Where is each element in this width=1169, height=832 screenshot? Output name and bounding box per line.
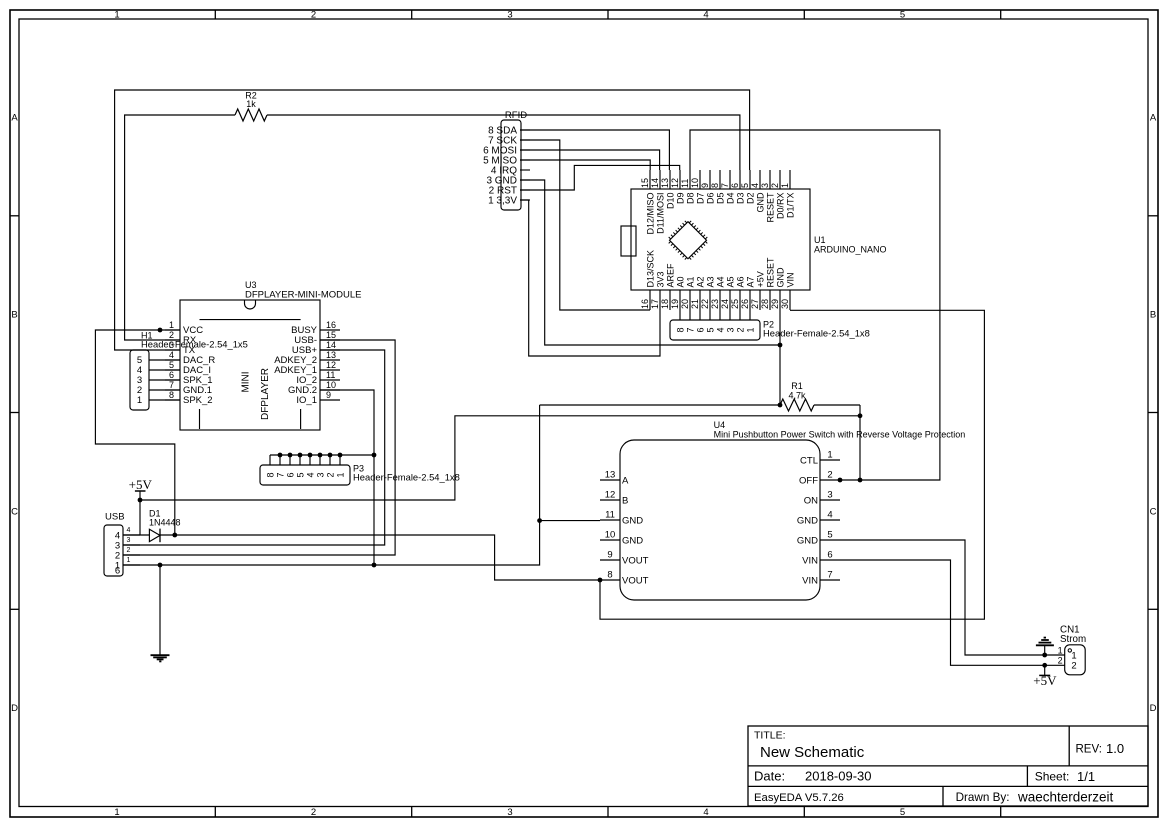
svg-text:26: 26 xyxy=(740,299,750,309)
wire net R2 to D3 xyxy=(267,115,740,170)
svg-text:4: 4 xyxy=(703,9,708,20)
svg-text:2: 2 xyxy=(127,547,131,554)
connector CN1 Strom xyxy=(1058,625,1086,675)
svg-text:3: 3 xyxy=(315,472,325,477)
svg-text:2018-09-30: 2018-09-30 xyxy=(805,769,872,784)
svg-text:VOUT: VOUT xyxy=(622,575,649,586)
svg-text:1: 1 xyxy=(780,183,790,188)
svg-text:D10: D10 xyxy=(665,193,675,210)
svg-text:9: 9 xyxy=(326,390,331,400)
svg-text:8: 8 xyxy=(265,472,275,477)
svg-text:TITLE:: TITLE: xyxy=(754,730,786,742)
module U3 DFPLAYER-MINI-MODULE xyxy=(165,280,361,430)
frame column ticks bottom xyxy=(215,807,1000,818)
wire net GND drop to ground symbol xyxy=(159,565,161,655)
svg-text:5: 5 xyxy=(169,360,174,370)
svg-text:5: 5 xyxy=(827,530,832,541)
wire net MOSI to D11 xyxy=(520,150,660,170)
svg-text:1: 1 xyxy=(745,327,755,332)
svg-text:4: 4 xyxy=(703,807,708,818)
svg-text:Mini Pushbutton Power Switch w: Mini Pushbutton Power Switch with Revers… xyxy=(714,430,966,440)
svg-text:+5V: +5V xyxy=(129,477,153,492)
wire net USB D- to DFPlayer USB- xyxy=(123,340,395,555)
svg-text:D11/MOSI: D11/MOSI xyxy=(655,193,665,234)
svg-text:3: 3 xyxy=(127,537,131,544)
svg-text:9: 9 xyxy=(607,550,612,561)
svg-text:1: 1 xyxy=(1058,646,1063,656)
svg-text:OFF: OFF xyxy=(799,475,818,486)
svg-text:23: 23 xyxy=(710,299,720,309)
svg-text:3: 3 xyxy=(725,327,735,332)
svg-text:D7: D7 xyxy=(695,193,705,205)
svg-text:2: 2 xyxy=(735,327,745,332)
svg-text:4: 4 xyxy=(305,472,315,477)
svg-text:DFPLAYER-MINI-MODULE: DFPLAYER-MINI-MODULE xyxy=(245,290,361,301)
svg-text:10: 10 xyxy=(326,380,336,390)
svg-text:15: 15 xyxy=(640,178,650,188)
svg-text:A: A xyxy=(622,475,629,486)
svg-text:6: 6 xyxy=(695,327,705,332)
svg-text:GND: GND xyxy=(797,535,818,546)
wire R1 right lead xyxy=(814,404,860,406)
svg-text:A4: A4 xyxy=(715,276,725,287)
svg-text:A3: A3 xyxy=(705,276,715,287)
frame column numbers top xyxy=(114,9,905,20)
svg-text:GND: GND xyxy=(622,515,643,526)
svg-text:D1/TX: D1/TX xyxy=(785,193,795,219)
frame row letters left xyxy=(11,112,18,714)
svg-text:A1: A1 xyxy=(685,276,695,287)
svg-text:6: 6 xyxy=(827,550,832,561)
svg-text:16: 16 xyxy=(640,299,650,309)
svg-text:A7: A7 xyxy=(745,276,755,287)
IC U4 Mini Pushbutton Power Switch xyxy=(600,420,965,600)
svg-text:Header-Female-2.54_1x8: Header-Female-2.54_1x8 xyxy=(763,328,870,339)
svg-text:Header-Female-2.54_1x5: Header-Female-2.54_1x5 xyxy=(141,339,248,350)
svg-text:12: 12 xyxy=(326,360,336,370)
svg-text:8: 8 xyxy=(710,183,720,188)
svg-text:D6: D6 xyxy=(705,193,715,205)
svg-text:1/1: 1/1 xyxy=(1077,769,1095,784)
svg-text:6: 6 xyxy=(115,566,120,577)
wire net GND USB pin1 stub xyxy=(123,564,160,566)
ground symbol near USB xyxy=(151,655,170,661)
svg-text:ARDUINO_NANO: ARDUINO_NANO xyxy=(814,245,887,255)
svg-text:2: 2 xyxy=(311,807,316,818)
svg-text:21: 21 xyxy=(690,299,700,309)
svg-text:13: 13 xyxy=(326,350,336,360)
svg-text:14: 14 xyxy=(326,340,336,350)
svg-text:D: D xyxy=(11,703,18,714)
svg-text:MINI: MINI xyxy=(241,371,252,392)
svg-text:7: 7 xyxy=(827,570,832,581)
svg-text:6: 6 xyxy=(169,370,174,380)
svg-text:D12/MISO: D12/MISO xyxy=(645,193,655,235)
wire net VCC: diode cathode to DFPlayer VCC xyxy=(95,328,180,538)
svg-text:25: 25 xyxy=(730,299,740,309)
frame row letters right xyxy=(1150,112,1157,714)
wire net TX to D2 (top long wire) xyxy=(115,90,750,350)
svg-text:16: 16 xyxy=(326,320,336,330)
IC U1 ARDUINO_NANO xyxy=(621,170,887,310)
svg-text:20: 20 xyxy=(680,299,690,309)
resistor R2 xyxy=(235,90,267,121)
svg-text:11: 11 xyxy=(680,179,690,188)
svg-text:D2: D2 xyxy=(745,193,755,205)
svg-text:R1: R1 xyxy=(791,381,803,391)
svg-text:RESET: RESET xyxy=(765,257,775,288)
svg-text:5: 5 xyxy=(295,472,305,477)
wire P3 common bus xyxy=(270,453,374,458)
svg-text:2: 2 xyxy=(1058,656,1063,666)
svg-text:1: 1 xyxy=(169,320,174,330)
wire net USB pin4 / diode row to U4 VOUT xyxy=(123,535,602,582)
header H1 HeaderFemale-2.54_1x5 xyxy=(130,331,248,411)
svg-text:U4: U4 xyxy=(714,420,726,430)
svg-text:New Schematic: New Schematic xyxy=(760,744,865,761)
svg-text:A5: A5 xyxy=(725,276,735,287)
svg-text:6: 6 xyxy=(285,472,295,477)
svg-text:GND: GND xyxy=(797,515,818,526)
svg-text:C: C xyxy=(11,506,18,517)
svg-text:7: 7 xyxy=(685,327,695,332)
diode D1 1N4448 xyxy=(149,509,181,543)
svg-text:B: B xyxy=(11,309,17,320)
header P3 Header-Female-2.54_1x8 xyxy=(260,455,460,485)
svg-text:13: 13 xyxy=(660,178,670,188)
svg-text:14: 14 xyxy=(650,178,660,188)
svg-text:5: 5 xyxy=(900,9,905,20)
svg-text:30: 30 xyxy=(780,299,790,309)
wire net D8 to U4 OFF xyxy=(690,130,940,482)
svg-text:C: C xyxy=(1150,506,1157,517)
svg-text:D8: D8 xyxy=(685,193,695,205)
svg-text:5: 5 xyxy=(705,327,715,332)
svg-text:Date:: Date: xyxy=(754,769,785,784)
svg-text:5: 5 xyxy=(740,183,750,188)
svg-text:5: 5 xyxy=(900,807,905,818)
svg-text:1: 1 xyxy=(137,395,142,406)
svg-text:RFID: RFID xyxy=(505,110,527,121)
svg-text:GND: GND xyxy=(622,535,643,546)
svg-text:U3: U3 xyxy=(245,280,257,290)
wire net RFID GND to Arduino GND xyxy=(520,180,782,347)
svg-text:12: 12 xyxy=(670,178,680,188)
svg-text:7: 7 xyxy=(720,183,730,188)
svg-text:4: 4 xyxy=(827,510,832,521)
svg-text:VIN: VIN xyxy=(802,555,818,566)
svg-text:28: 28 xyxy=(760,299,770,309)
svg-text:A: A xyxy=(11,112,18,123)
svg-text:ON: ON xyxy=(804,495,818,506)
svg-text:D9: D9 xyxy=(675,193,685,205)
wire net +5V from symbol to U4 OFF / R1 right xyxy=(138,405,863,535)
svg-text:GND: GND xyxy=(755,192,765,213)
svg-text:9: 9 xyxy=(700,183,710,188)
svg-text:12: 12 xyxy=(605,490,616,501)
svg-text:3V3: 3V3 xyxy=(655,271,665,287)
svg-text:B: B xyxy=(622,495,628,506)
power +5V symbol at CN1 xyxy=(1033,665,1057,688)
wire net GND DFPlayer GND.2 via P3 bus xyxy=(320,390,376,565)
wire net RFID 3.3V to Arduino 3V3 xyxy=(520,200,660,356)
svg-text:D4: D4 xyxy=(725,193,735,205)
svg-text:4: 4 xyxy=(750,183,760,188)
svg-text:2: 2 xyxy=(770,183,780,188)
svg-text:7: 7 xyxy=(275,472,285,477)
svg-text:IO_1: IO_1 xyxy=(296,395,317,406)
frame row ticks left xyxy=(10,216,19,610)
svg-text:18: 18 xyxy=(660,299,670,309)
svg-text:1 3,3V: 1 3,3V xyxy=(488,195,517,206)
ground symbol at CN1 xyxy=(1036,638,1054,655)
svg-text:A: A xyxy=(1150,112,1157,123)
svg-text:+5V: +5V xyxy=(1033,673,1057,688)
svg-text:D: D xyxy=(1150,703,1157,714)
svg-text:A2: A2 xyxy=(695,276,705,287)
svg-text:2: 2 xyxy=(1071,661,1076,672)
svg-text:7: 7 xyxy=(169,380,174,390)
wire net MISO to D12 xyxy=(520,160,650,170)
svg-text:1: 1 xyxy=(335,472,345,477)
svg-text:19: 19 xyxy=(670,299,680,309)
wire net RST to D9 xyxy=(520,165,680,190)
svg-text:Header-Female-2.54_1x8: Header-Female-2.54_1x8 xyxy=(353,472,460,483)
svg-text:29: 29 xyxy=(770,299,780,309)
wire net U4 GND pin5 to CN1 pin1 xyxy=(840,540,1065,657)
svg-text:17: 17 xyxy=(650,299,660,309)
svg-text:8: 8 xyxy=(607,570,612,581)
svg-text:2: 2 xyxy=(325,472,335,477)
svg-text:U1: U1 xyxy=(814,235,826,245)
wire net GND vertical with U4 GND branch xyxy=(158,405,600,567)
svg-text:1: 1 xyxy=(114,807,119,818)
svg-text:10: 10 xyxy=(605,530,616,541)
svg-text:AREF: AREF xyxy=(665,263,675,288)
svg-text:A6: A6 xyxy=(735,276,745,287)
svg-text:D3: D3 xyxy=(735,193,745,205)
header RFID 1x8 xyxy=(483,110,530,210)
svg-text:waechterderzeit: waechterderzeit xyxy=(1017,790,1114,805)
svg-text:3: 3 xyxy=(760,183,770,188)
svg-text:24: 24 xyxy=(720,299,730,309)
svg-text:D13/SCK: D13/SCK xyxy=(645,250,655,288)
svg-text:3: 3 xyxy=(827,490,832,501)
svg-text:DFPLAYER: DFPLAYER xyxy=(260,368,271,420)
svg-text:1: 1 xyxy=(127,557,131,564)
svg-text:11: 11 xyxy=(605,510,615,521)
frame row ticks right xyxy=(1148,216,1158,610)
svg-text:1: 1 xyxy=(827,450,832,461)
svg-text:6: 6 xyxy=(730,183,740,188)
svg-text:15: 15 xyxy=(326,330,336,340)
svg-text:EasyEDA V5.7.26: EasyEDA V5.7.26 xyxy=(754,792,844,804)
svg-text:10: 10 xyxy=(690,178,700,188)
wire net SDA to D10 xyxy=(520,130,669,170)
svg-text:REV:: REV: xyxy=(1076,744,1102,756)
svg-text:D5: D5 xyxy=(715,193,725,205)
wire net GND horizontal R1 row xyxy=(540,404,780,406)
svg-text:Sheet:: Sheet: xyxy=(1035,770,1070,784)
svg-text:CTL: CTL xyxy=(800,455,818,466)
svg-text:VIN: VIN xyxy=(785,272,795,287)
header P2 Header-Female-2.54_1x8 xyxy=(670,310,870,340)
svg-text:B: B xyxy=(1150,309,1156,320)
svg-text:8: 8 xyxy=(675,327,685,332)
svg-text:2: 2 xyxy=(311,9,316,20)
svg-text:VOUT: VOUT xyxy=(622,555,649,566)
svg-text:A0: A0 xyxy=(675,276,685,287)
svg-text:27: 27 xyxy=(750,299,760,309)
svg-text:1.0: 1.0 xyxy=(1106,741,1124,756)
svg-text:VIN: VIN xyxy=(802,575,818,586)
power +5V symbol top left xyxy=(129,477,153,492)
svg-text:GND: GND xyxy=(775,267,785,288)
title block xyxy=(748,726,1148,806)
svg-text:11: 11 xyxy=(326,370,335,380)
svg-text:+5V: +5V xyxy=(755,271,765,287)
svg-text:4: 4 xyxy=(127,527,131,534)
wire net SCK to D13 xyxy=(520,140,650,310)
svg-text:8: 8 xyxy=(169,390,174,400)
frame column numbers bottom xyxy=(114,807,905,818)
wire net GND main: Arduino pin29 down to R1 junction xyxy=(778,310,783,407)
svg-text:D0/RX: D0/RX xyxy=(775,193,785,220)
svg-text:3: 3 xyxy=(507,9,512,20)
svg-text:1: 1 xyxy=(114,9,119,20)
resistor R1 xyxy=(780,381,814,411)
svg-text:1N4448: 1N4448 xyxy=(149,518,181,528)
svg-text:1k: 1k xyxy=(246,99,256,109)
svg-text:4: 4 xyxy=(715,327,725,332)
svg-text:4: 4 xyxy=(169,350,174,360)
svg-text:Strom: Strom xyxy=(1060,634,1086,645)
svg-text:USB: USB xyxy=(105,512,125,523)
svg-text:SPK_2: SPK_2 xyxy=(183,395,213,406)
wire net VOUT to Arduino VIN xyxy=(600,310,984,619)
svg-text:4,7k: 4,7k xyxy=(788,391,806,401)
svg-text:22: 22 xyxy=(700,299,710,309)
svg-text:Drawn By:: Drawn By: xyxy=(956,791,1010,804)
connector USB xyxy=(104,512,140,577)
wire net RX to R2 left xyxy=(125,115,235,340)
svg-text:13: 13 xyxy=(605,470,616,481)
frame column ticks top xyxy=(215,10,1000,19)
svg-text:3: 3 xyxy=(507,807,512,818)
wire net U4 VIN pin6 to CN1 pin2 xyxy=(840,560,1065,668)
svg-text:2: 2 xyxy=(827,470,832,481)
svg-text:RESET: RESET xyxy=(765,192,775,223)
wire net USB D+ to DFPlayer USB+ xyxy=(123,350,385,545)
